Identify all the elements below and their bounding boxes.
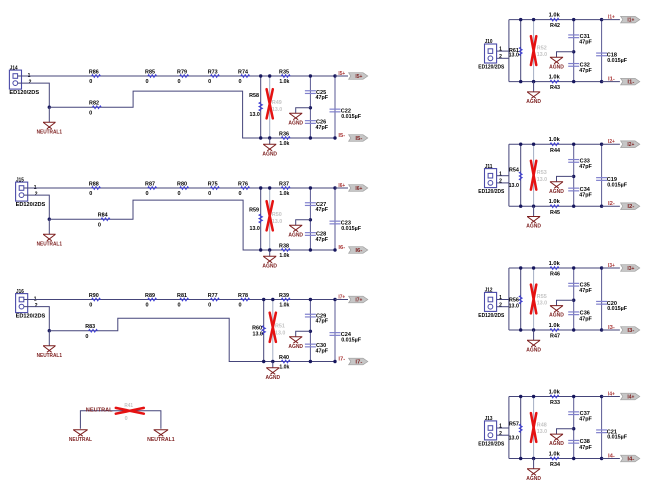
resistor R43 1.0k: [550, 80, 559, 83]
port I3+: [621, 265, 640, 272]
svg-text:47pF: 47pF: [316, 125, 329, 131]
svg-text:R47: R47: [550, 334, 560, 340]
junction: [309, 360, 312, 363]
junction: [268, 248, 271, 251]
power symbol AGND (cap mid): [550, 182, 563, 189]
svg-text:I7+: I7+: [338, 295, 345, 301]
svg-text:0: 0: [177, 191, 180, 197]
power symbol NEUTRAL1: [154, 430, 169, 437]
svg-text:1.0k: 1.0k: [549, 74, 561, 80]
svg-text:13.0: 13.0: [509, 303, 519, 309]
resistor R81 0: [180, 298, 189, 301]
wire pin1 J11: [497, 175, 509, 177]
svg-text:AGND: AGND: [526, 476, 541, 482]
resistor R52 13.0 (DNP): [533, 20, 535, 82]
junction: [262, 360, 265, 363]
svg-text:R35: R35: [279, 69, 289, 75]
junction: [572, 457, 575, 460]
power symbol AGND (cap mid): [550, 306, 563, 313]
svg-text:ED120/2DS: ED120/2DS: [478, 441, 504, 447]
svg-text:I1+: I1+: [608, 15, 615, 21]
power symbol AGND: [269, 138, 271, 144]
wire top rail J10: [509, 19, 602, 21]
junction: [268, 186, 271, 189]
junction: [259, 248, 262, 251]
resistor R55 13.0 (DNP): [533, 268, 535, 330]
svg-text:R53: R53: [537, 170, 547, 176]
resistor R60 13.0: [263, 300, 265, 362]
svg-text:I1-: I1-: [608, 77, 615, 83]
wire pin1 J10: [497, 50, 509, 52]
junction: [271, 298, 274, 301]
svg-text:0.015µF: 0.015µF: [607, 435, 628, 441]
svg-text:AGND: AGND: [262, 151, 277, 157]
resistor R39 1.0k: [281, 298, 290, 301]
port I2-: [621, 203, 640, 210]
junction: [532, 143, 535, 146]
svg-text:47pF: 47pF: [579, 39, 592, 45]
svg-text:2: 2: [499, 302, 502, 308]
resistor R73 0: [210, 75, 219, 78]
svg-text:R44: R44: [550, 148, 561, 154]
svg-text:J15: J15: [16, 178, 24, 184]
capacitor C18 0.015uF: [601, 20, 603, 82]
junction: [572, 18, 575, 21]
capacitor C26 47pF: [305, 120, 316, 122]
junction: [519, 457, 522, 460]
wire to port I5+: [335, 75, 348, 77]
svg-text:R90: R90: [89, 293, 99, 299]
resistor R85 0: [148, 75, 157, 78]
capacitor C22 0.015uF: [334, 76, 336, 138]
svg-text:R75: R75: [208, 181, 218, 187]
svg-text:1: 1: [499, 47, 502, 53]
connector J14: [9, 70, 21, 89]
wire to port I2-: [602, 205, 620, 207]
svg-text:0: 0: [177, 79, 180, 85]
svg-text:R33: R33: [550, 400, 560, 406]
port I4-: [621, 455, 640, 462]
junction: [572, 328, 575, 331]
svg-text:I6-: I6-: [338, 245, 345, 251]
power symbol AGND (cap mid): [289, 225, 302, 232]
svg-text:R50: R50: [272, 212, 282, 218]
wire to port I1-: [602, 81, 620, 83]
power symbol AGND: [533, 82, 535, 92]
svg-text:1: 1: [499, 295, 502, 301]
svg-text:R34: R34: [550, 462, 561, 468]
svg-text:0: 0: [238, 303, 241, 309]
capacitor C28 47pF: [305, 232, 316, 234]
svg-text:J14: J14: [10, 66, 19, 72]
resistor R37 1.0k: [281, 187, 290, 190]
svg-text:2: 2: [499, 54, 502, 60]
svg-text:J13: J13: [485, 416, 493, 422]
svg-text:0: 0: [238, 79, 241, 85]
port I7+: [349, 296, 368, 303]
wire top rail J12: [509, 267, 602, 269]
svg-text:J11: J11: [485, 164, 493, 170]
svg-text:13.0: 13.0: [275, 330, 285, 336]
junction: [600, 266, 603, 269]
svg-text:NEUTRAL1: NEUTRAL1: [147, 437, 175, 443]
junction: [259, 186, 262, 189]
resistor R47 1.0k: [550, 329, 559, 332]
resistor R38 1.0k: [281, 249, 290, 252]
svg-text:1.0k: 1.0k: [549, 261, 561, 267]
svg-text:R54: R54: [509, 167, 520, 173]
svg-text:0: 0: [208, 303, 211, 309]
svg-text:I5-: I5-: [355, 136, 362, 142]
power symbol AGND (cap mid): [550, 434, 563, 441]
resistor R79 0: [180, 75, 189, 78]
resistor R48 13.0 (DNP): [533, 397, 535, 459]
power symbol NEUTRAL: [73, 430, 88, 437]
junction: [532, 328, 535, 331]
resistor R58 13.0: [260, 76, 262, 138]
capacitor C36 47pF: [568, 311, 579, 313]
svg-text:0.015µF: 0.015µF: [341, 114, 362, 120]
svg-text:R82: R82: [89, 101, 99, 107]
svg-text:0.015µF: 0.015µF: [607, 306, 628, 312]
svg-text:AGND: AGND: [262, 263, 277, 269]
svg-text:13.0: 13.0: [509, 436, 519, 442]
svg-text:R87: R87: [145, 181, 155, 187]
wire to port I6+: [335, 187, 348, 189]
svg-text:1.0k: 1.0k: [549, 451, 561, 457]
svg-text:47pF: 47pF: [316, 237, 329, 243]
svg-text:R42: R42: [550, 23, 560, 29]
junction: [309, 186, 312, 189]
resistor R40 1.0k: [281, 360, 290, 363]
resistor R44 1.0k: [550, 143, 559, 146]
svg-text:AGND: AGND: [526, 224, 541, 230]
svg-text:0.015µF: 0.015µF: [341, 337, 362, 343]
junction: [532, 266, 535, 269]
wire left vertical J13: [508, 397, 510, 459]
resistor R86 0: [92, 75, 101, 78]
power symbol AGND: [533, 330, 535, 340]
port I5+: [349, 73, 368, 80]
junction: [309, 106, 312, 109]
port I4+: [621, 393, 640, 400]
svg-text:I4+: I4+: [608, 392, 615, 398]
port I5-: [349, 135, 368, 142]
svg-text:I4-: I4-: [608, 454, 615, 460]
power symbol AGND (cap mid): [289, 113, 302, 120]
resistor R41 0 (DNP): [116, 408, 144, 414]
resistor R49 13.0 (DNP): [269, 76, 271, 138]
junction: [572, 50, 575, 53]
junction: [519, 395, 522, 398]
junction: [572, 299, 575, 302]
svg-text:13.0: 13.0: [537, 301, 547, 307]
junction: [572, 80, 575, 83]
svg-text:I2+: I2+: [627, 142, 634, 148]
resistor R35 1.0k: [281, 75, 290, 78]
svg-text:0: 0: [89, 110, 92, 116]
wire to port I7+: [335, 299, 348, 301]
power symbol NEUTRAL1 (J14): [48, 107, 50, 122]
svg-text:1.0k: 1.0k: [279, 79, 290, 85]
svg-text:47pF: 47pF: [316, 95, 329, 101]
svg-text:0: 0: [208, 79, 211, 85]
svg-text:I3-: I3-: [608, 325, 615, 331]
svg-text:R43: R43: [550, 85, 560, 91]
svg-text:47pF: 47pF: [316, 319, 329, 325]
connector J10: [485, 44, 497, 63]
port I6+: [349, 185, 368, 192]
power symbol AGND: [533, 459, 535, 469]
svg-text:R37: R37: [279, 181, 289, 187]
resistor R83 0: [89, 329, 98, 332]
svg-text:I5+: I5+: [355, 74, 362, 80]
capacitor C29 47pF: [309, 300, 311, 362]
svg-text:R83: R83: [85, 324, 95, 330]
wire agnd stub: [557, 176, 574, 181]
capacitor C31 47pF: [573, 20, 575, 82]
svg-text:I2+: I2+: [608, 139, 615, 145]
capacitor C33 47pF: [573, 144, 575, 206]
resistor R57 13.0: [520, 397, 522, 459]
svg-text:AGND: AGND: [265, 375, 280, 381]
junction: [519, 18, 522, 21]
wire bottom rail J10: [509, 81, 602, 83]
resistor R45 1.0k: [550, 205, 559, 208]
wire top rail J14 pin1: [18, 75, 335, 77]
junction: [600, 328, 603, 331]
svg-text:R80: R80: [177, 181, 187, 187]
svg-text:1.0k: 1.0k: [549, 12, 561, 18]
svg-text:R78: R78: [238, 293, 248, 299]
svg-text:ED120/2DS: ED120/2DS: [478, 313, 504, 319]
svg-text:J12: J12: [485, 288, 493, 294]
capacitor C27 47pF: [309, 188, 311, 250]
junction: [600, 395, 603, 398]
svg-text:47pF: 47pF: [579, 316, 592, 322]
svg-text:R46: R46: [550, 272, 560, 278]
wire top rail J13: [509, 396, 602, 398]
connector J11: [485, 169, 497, 188]
junction: [532, 457, 535, 460]
svg-text:0: 0: [238, 191, 241, 197]
junction: [572, 427, 575, 430]
svg-text:47pF: 47pF: [579, 445, 592, 451]
junction: [309, 218, 312, 221]
resistor R51 13.0 (DNP): [272, 300, 274, 362]
svg-text:R81: R81: [177, 293, 187, 299]
svg-text:I6+: I6+: [338, 183, 345, 189]
svg-text:AGND: AGND: [288, 344, 303, 350]
junction: [600, 457, 603, 460]
svg-text:AGND: AGND: [288, 120, 303, 126]
svg-text:J16: J16: [16, 289, 24, 295]
resistor R56 13.0: [520, 268, 522, 330]
svg-text:0: 0: [89, 191, 92, 197]
resistor R46 1.0k: [550, 267, 559, 270]
svg-text:0: 0: [145, 303, 148, 309]
junction: [333, 248, 336, 251]
capacitor C38 47pF: [568, 439, 579, 441]
svg-text:13.0: 13.0: [537, 177, 547, 183]
capacitor C24 0.015uF: [334, 300, 336, 362]
resistor R88 0: [92, 187, 101, 190]
svg-text:R48: R48: [537, 422, 547, 428]
junction: [48, 106, 51, 109]
svg-text:I6-: I6-: [355, 248, 362, 254]
capacitor C21 0.015uF: [601, 397, 603, 459]
svg-text:0: 0: [145, 191, 148, 197]
port I1+: [621, 16, 640, 23]
wire to port I1+: [602, 19, 620, 21]
svg-text:AGND: AGND: [549, 189, 564, 195]
svg-text:R38: R38: [279, 243, 289, 249]
junction: [268, 74, 271, 77]
junction: [600, 80, 603, 83]
junction: [333, 74, 336, 77]
junction: [309, 298, 312, 301]
svg-text:2: 2: [499, 179, 502, 185]
svg-text:I4-: I4-: [627, 457, 634, 463]
svg-text:13.0: 13.0: [253, 332, 263, 338]
svg-text:AGND: AGND: [549, 441, 564, 447]
svg-text:R36: R36: [279, 131, 289, 137]
resistor R89 0: [148, 298, 157, 301]
svg-text:R39: R39: [279, 293, 289, 299]
svg-text:J10: J10: [485, 39, 493, 45]
junction: [600, 143, 603, 146]
junction: [572, 143, 575, 146]
wire agnd stub: [296, 220, 311, 225]
svg-text:1.0k: 1.0k: [279, 303, 290, 309]
resistor R54 13.0: [520, 144, 522, 206]
wire pin2 J10: [497, 57, 509, 59]
port I1-: [621, 78, 640, 85]
port I3-: [621, 327, 640, 334]
svg-text:1.0k: 1.0k: [549, 323, 561, 329]
svg-text:0: 0: [208, 191, 211, 197]
svg-text:AGND: AGND: [526, 347, 541, 353]
junction: [572, 205, 575, 208]
wire pin2 J11: [497, 182, 509, 184]
svg-text:R52: R52: [537, 45, 547, 51]
svg-text:R74: R74: [238, 69, 249, 75]
resistor R59 13.0: [260, 188, 262, 250]
svg-text:I3+: I3+: [608, 263, 615, 269]
wire pin2 to node J16: [24, 307, 50, 331]
power symbol AGND: [272, 362, 274, 368]
svg-text:R55: R55: [537, 294, 547, 300]
junction: [519, 266, 522, 269]
svg-text:13.0: 13.0: [537, 52, 547, 58]
svg-text:13.0: 13.0: [250, 112, 260, 118]
junction: [532, 395, 535, 398]
svg-text:I7-: I7-: [338, 357, 345, 363]
svg-text:I7-: I7-: [355, 360, 362, 366]
junction: [271, 360, 274, 363]
svg-text:NEUTRAL1: NEUTRAL1: [37, 353, 62, 359]
wire pin2 J13: [497, 434, 509, 436]
wire left vertical J10: [508, 20, 510, 82]
junction: [572, 395, 575, 398]
connector J12: [485, 292, 497, 311]
junction: [259, 136, 262, 139]
svg-text:1.0k: 1.0k: [279, 141, 290, 147]
svg-text:13.0: 13.0: [537, 429, 547, 435]
svg-text:I2-: I2-: [608, 201, 615, 207]
power symbol AGND: [533, 206, 535, 216]
svg-text:1: 1: [499, 424, 502, 430]
resistor R84 0: [101, 218, 110, 221]
svg-text:13.0: 13.0: [272, 107, 282, 113]
port I2+: [621, 141, 640, 148]
wire agnd stub: [557, 429, 574, 434]
svg-text:47pF: 47pF: [579, 416, 592, 422]
resistor R53 13.0 (DNP): [533, 144, 535, 206]
wire lower run J14: [49, 91, 335, 138]
power symbol AGND (cap mid): [550, 57, 563, 64]
svg-text:R59: R59: [249, 208, 259, 214]
svg-text:13.0: 13.0: [272, 219, 282, 225]
svg-text:0: 0: [89, 79, 92, 85]
capacitor C34 47pF: [568, 187, 579, 189]
svg-text:ED120/2DS: ED120/2DS: [16, 314, 46, 320]
wire pin2 to node J14: [18, 83, 50, 107]
junction: [519, 143, 522, 146]
wire lower run J15: [49, 200, 335, 250]
capacitor C25 47pF: [309, 76, 311, 138]
capacitor C23 0.015uF: [334, 188, 336, 250]
svg-text:I2-: I2-: [627, 204, 634, 210]
capacitor C32 47pF: [568, 63, 579, 65]
power symbol AGND (cap mid): [289, 337, 302, 344]
wire top rail J15 pin1: [24, 187, 335, 189]
wire agnd stub: [557, 52, 574, 57]
svg-text:I7+: I7+: [355, 298, 362, 304]
wire to port I4-: [602, 458, 620, 460]
wire top rail J16 pin1: [24, 299, 335, 301]
svg-text:R89: R89: [145, 293, 155, 299]
svg-text:R84: R84: [98, 213, 109, 219]
resistor R75 0: [210, 187, 219, 190]
svg-text:13.0: 13.0: [509, 52, 519, 58]
resistor R87 0: [148, 187, 157, 190]
wire top rail J11: [509, 143, 602, 145]
svg-text:0: 0: [98, 222, 101, 228]
svg-text:AGND: AGND: [549, 313, 564, 319]
svg-text:I6+: I6+: [355, 186, 362, 192]
svg-text:I3-: I3-: [627, 328, 634, 334]
svg-text:R45: R45: [550, 210, 560, 216]
junction: [532, 80, 535, 83]
svg-text:R76: R76: [238, 181, 248, 187]
junction: [262, 298, 265, 301]
svg-text:NEUTRAL: NEUTRAL: [86, 407, 113, 413]
connector J13: [485, 421, 497, 440]
svg-text:R49: R49: [272, 100, 282, 106]
junction: [333, 186, 336, 189]
junction: [48, 218, 51, 221]
junction: [532, 205, 535, 208]
junction: [572, 175, 575, 178]
capacitor C30 47pF: [305, 343, 316, 345]
svg-text:1: 1: [499, 171, 502, 177]
svg-text:0: 0: [145, 79, 148, 85]
svg-text:I4+: I4+: [627, 395, 634, 401]
wire neutral tie: [80, 411, 160, 429]
junction: [333, 298, 336, 301]
wire to port I3-: [602, 329, 620, 331]
